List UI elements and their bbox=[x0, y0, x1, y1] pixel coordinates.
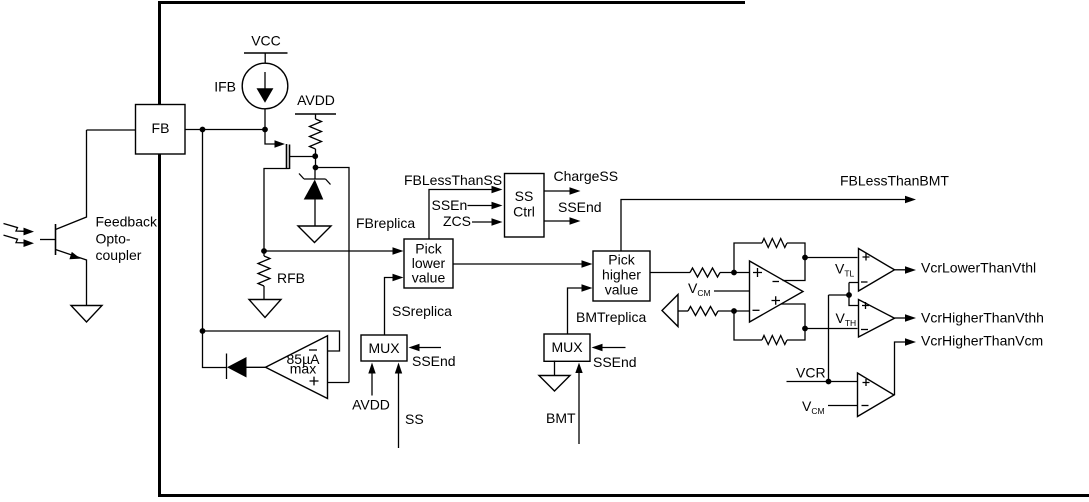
svg-text:max: max bbox=[290, 361, 316, 377]
svg-text:MUX: MUX bbox=[368, 340, 400, 356]
svg-text:AVDD: AVDD bbox=[297, 92, 335, 108]
svg-text:Feedback: Feedback bbox=[96, 214, 158, 230]
svg-text:FBLessThanSS: FBLessThanSS bbox=[404, 172, 502, 188]
svg-text:value: value bbox=[605, 282, 639, 298]
svg-text:FB: FB bbox=[152, 120, 170, 136]
svg-text:SSEn: SSEn bbox=[432, 197, 468, 213]
svg-text:SS: SS bbox=[515, 188, 534, 204]
svg-text:ChargeSS: ChargeSS bbox=[554, 168, 619, 184]
svg-text:FBreplica: FBreplica bbox=[356, 215, 415, 231]
svg-text:VcrLowerThanVthl: VcrLowerThanVthl bbox=[921, 260, 1036, 276]
svg-text:coupler: coupler bbox=[96, 247, 142, 263]
svg-text:Pick: Pick bbox=[608, 252, 635, 268]
svg-text:Opto-: Opto- bbox=[96, 231, 131, 247]
svg-text:BMTreplica: BMTreplica bbox=[576, 309, 646, 325]
svg-text:SSreplica: SSreplica bbox=[392, 303, 452, 319]
svg-text:RFB: RFB bbox=[277, 270, 305, 286]
svg-text:higher: higher bbox=[602, 267, 641, 283]
svg-text:IFB: IFB bbox=[214, 79, 236, 95]
svg-text:ZCS: ZCS bbox=[443, 213, 471, 229]
svg-text:VCR: VCR bbox=[796, 365, 826, 381]
svg-text:SSEnd: SSEnd bbox=[558, 199, 602, 215]
svg-text:MUX: MUX bbox=[551, 339, 583, 355]
svg-text:VcrHigherThanVcm: VcrHigherThanVcm bbox=[921, 333, 1043, 349]
svg-text:SSEnd: SSEnd bbox=[412, 353, 456, 369]
svg-text:VCC: VCC bbox=[251, 33, 281, 49]
svg-text:Ctrl: Ctrl bbox=[513, 204, 535, 220]
svg-text:SSEnd: SSEnd bbox=[593, 354, 637, 370]
svg-text:SS: SS bbox=[405, 411, 424, 427]
svg-text:FBLessThanBMT: FBLessThanBMT bbox=[840, 173, 949, 189]
svg-text:VcrHigherThanVthh: VcrHigherThanVthh bbox=[921, 310, 1044, 326]
svg-text:AVDD: AVDD bbox=[352, 397, 390, 413]
svg-text:BMT: BMT bbox=[546, 410, 576, 426]
svg-text:value: value bbox=[412, 270, 446, 286]
